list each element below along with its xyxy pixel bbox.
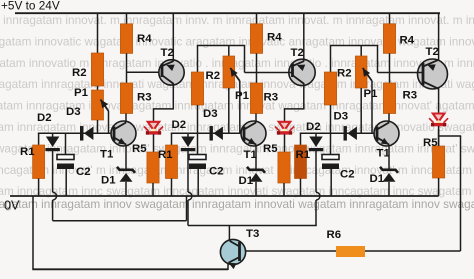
- wire D1 to 0V stage2: [255, 182, 257, 196]
- wire T3 emitter to bottom line: [227, 263, 229, 270]
- resistor R5-2: [278, 152, 290, 183]
- wire rail to R4 stage3: [389, 13, 391, 24]
- transistor T3: [220, 239, 245, 264]
- wire R4 to R3 stage2: [256, 53, 258, 83]
- svg-text:T2: T2: [291, 47, 304, 59]
- wire rail to R2 stage1: [97, 13, 99, 53]
- wire R2 to P1 stage1: [97, 86, 99, 90]
- wire C2 to 0V stage3: [330, 169, 332, 196]
- transistor T1-1: [111, 121, 136, 146]
- svg-text:T2: T2: [426, 46, 439, 58]
- svg-text:m innragatam innovat. m inn: m innragatam innovat. m innragatam innv.…: [0, 13, 474, 27]
- wire left drop to bottom: [32, 196, 34, 269]
- wire node to R1 stage1: [38, 133, 40, 146]
- wire node to R1 stage3: [300, 133, 302, 146]
- svg-text:R5: R5: [423, 137, 438, 149]
- wire D2-2 to bracket B: [187, 151, 189, 193]
- resistor R4-1: [120, 24, 132, 54]
- watermark background text: [0, 13, 474, 211]
- wire T1 base node line stage2: [171, 132, 210, 134]
- svg-text:D3: D3: [66, 106, 81, 118]
- svg-text:R1: R1: [296, 149, 311, 161]
- svg-text:D1: D1: [101, 174, 116, 186]
- preset P1-2: [223, 56, 235, 88]
- wire node to C2 stage3: [330, 133, 332, 155]
- transistor T1-2: [241, 121, 266, 146]
- wire T2 collector down stage2: [303, 83, 305, 109]
- svg-text:D1: D1: [370, 173, 385, 185]
- wire P1 top stage2: [228, 46, 230, 57]
- wire C2 to 0V stage1: [65, 169, 67, 196]
- capacitor C2-1: [57, 155, 74, 160]
- svg-text:C2: C2: [209, 165, 224, 177]
- svg-text:D2: D2: [306, 121, 321, 133]
- wire T3 base to R6: [246, 250, 337, 252]
- svg-text:T1: T1: [100, 148, 114, 160]
- wire D1 to 0V stage3: [388, 182, 390, 196]
- zener diode D1-3: [380, 167, 398, 173]
- wire R1 to 0V stage2: [171, 179, 173, 197]
- wire T1 emitter to D1 stage2: [255, 145, 257, 171]
- wire node to D2 stage3: [315, 133, 317, 137]
- preset P1 stage1: [92, 90, 104, 120]
- wire T2 emitter to rail stage2: [303, 13, 305, 61]
- svg-text:P1: P1: [235, 90, 250, 102]
- wire R5 to 0V stage2: [283, 183, 285, 196]
- resistor R1-3: [295, 145, 307, 179]
- wire node to C2 stage1: [65, 133, 67, 155]
- resistor R2-2: [191, 72, 203, 105]
- svg-text:T3: T3: [246, 228, 259, 240]
- svg-text:R4: R4: [267, 31, 282, 43]
- wire T2 collector down stage3: [438, 88, 440, 114]
- transistor T2-2: [289, 59, 315, 85]
- svg-text:wagatam innragatam innov swa: wagatam innragatam innov swagatam innrag…: [0, 197, 474, 211]
- preset P1-3: [355, 56, 367, 88]
- resistor R5-3: [433, 146, 445, 178]
- svg-text:D3: D3: [334, 110, 349, 122]
- wire R4 to R3 stage3: [389, 53, 391, 83]
- wire R5 to 0V stage3: [438, 178, 440, 196]
- node R5-3 junction wire: [438, 129, 440, 146]
- wire LED to R5 stage2: [284, 134, 286, 152]
- svg-text:C2: C2: [340, 168, 355, 180]
- wire R1 to 0V stage3: [300, 179, 302, 197]
- resistor R2-1: [91, 53, 103, 86]
- LED LED-1: [148, 122, 160, 130]
- wire node to R1 stage2: [171, 133, 173, 146]
- wire D2-3 down: [315, 151, 317, 193]
- diode D3-2: [210, 126, 213, 141]
- LED LED-2: [279, 122, 291, 130]
- wire T3 collector: [228, 226, 230, 241]
- svg-text:swagatam innragatam innovat': swagatam innragatam innovat' swagatam in…: [0, 141, 474, 155]
- zener diode D1-2: [247, 167, 265, 173]
- wire LED to R5 stage3: [438, 126, 440, 146]
- wire T1 emitter to D1 stage3: [388, 145, 390, 171]
- wire T1 base node line stage3: [300, 132, 344, 134]
- wire bracket B: [188, 225, 317, 227]
- svg-text:0V: 0V: [4, 199, 20, 213]
- svg-text:D3: D3: [203, 108, 218, 120]
- diode D2-3: [309, 137, 323, 148]
- wire T1 collector to R3 stage2: [255, 114, 257, 123]
- wire +V top rail: [15, 12, 440, 14]
- svg-text:R2: R2: [72, 67, 87, 79]
- diode D3-3: [344, 126, 347, 141]
- transistor T1-3: [374, 121, 399, 146]
- transistor T2-1: [159, 60, 184, 85]
- resistor R1-1: [33, 145, 45, 179]
- wire bracket A: [53, 220, 187, 222]
- wire node to C2 stage2: [197, 133, 199, 155]
- wire R6 to right edge: [365, 250, 461, 252]
- svg-text:T1: T1: [244, 149, 258, 161]
- wire C2 to 0V stage2: [197, 169, 199, 196]
- transistor T2-3: [418, 59, 448, 89]
- svg-text:R4: R4: [137, 33, 152, 45]
- wire T2 collector down stage1: [172, 83, 174, 109]
- preset wiper arrow P1-3: [363, 68, 372, 81]
- wire node to T2 base stage1: [127, 71, 163, 73]
- wire 0V rail: [10, 195, 439, 197]
- resistor R3-2: [250, 83, 262, 114]
- svg-text:R4: R4: [400, 34, 415, 46]
- capacitor C2-2: [189, 155, 206, 160]
- wire right edge up: [460, 136, 462, 251]
- svg-text:T1: T1: [377, 147, 391, 159]
- resistor R2-3: [324, 72, 336, 105]
- svg-text:R3: R3: [403, 89, 418, 101]
- wire P1 bottom stage3: [360, 88, 362, 133]
- resistor R1-2: [166, 145, 178, 179]
- svg-text:C2: C2: [76, 166, 91, 178]
- diode D2-1: [46, 137, 60, 148]
- wire node to D2 stage1: [52, 133, 54, 137]
- svg-text:P1: P1: [74, 87, 89, 99]
- resistor R4-2: [250, 24, 262, 54]
- resistor R3-1: [120, 83, 132, 114]
- svg-text:D2: D2: [37, 112, 52, 124]
- svg-text:R5: R5: [132, 143, 147, 155]
- svg-text:R2: R2: [337, 67, 352, 79]
- wire T1 base node line stage1: [38, 132, 80, 134]
- svg-text:R2: R2: [206, 70, 221, 82]
- wire T1 collector to R3 stage3: [388, 114, 390, 123]
- LED LED-3: [433, 114, 445, 122]
- resistor R3-3: [383, 83, 395, 114]
- preset wiper arrow P1 stage1: [101, 100, 109, 112]
- wire P1 bottom stage2: [228, 88, 230, 133]
- wire wiper down stage1: [108, 111, 110, 133]
- wire T1 emitter to D1 stage1: [125, 145, 127, 171]
- wire rail to R4 stage2: [256, 13, 258, 24]
- preset wiper arrow P1-2: [230, 68, 240, 81]
- wire R5 to 0V stage1: [152, 183, 154, 196]
- svg-text:R3: R3: [137, 91, 152, 103]
- wire R2 to node stage3: [330, 105, 332, 133]
- wire bottom long line: [32, 268, 228, 270]
- svg-text:R3: R3: [264, 91, 279, 103]
- wire wiper down stage2: [239, 81, 241, 133]
- svg-text:R1: R1: [158, 149, 173, 161]
- svg-text:R1: R1: [20, 146, 35, 158]
- wire R4 to R3 stage1: [126, 53, 128, 83]
- wire P1 top stage3: [360, 46, 362, 57]
- resistor R4-3: [383, 24, 395, 54]
- wire T1 collector to R3 stage1: [125, 114, 127, 123]
- diode D3-1: [80, 126, 83, 141]
- svg-text:swagatam innragatam innovatio: swagatam innragatam innovatio swagatam i…: [0, 120, 474, 134]
- wire P1 to base node stage1: [97, 120, 99, 133]
- svg-text:D2: D2: [172, 119, 187, 131]
- wire bracket stage3: [330, 46, 332, 73]
- wire bracket stage2: [197, 46, 199, 73]
- svg-text:R5: R5: [263, 143, 278, 155]
- wire R1 to 0V stage1: [38, 179, 40, 197]
- svg-text:D1: D1: [239, 175, 254, 187]
- wire node to D2 stage2: [187, 133, 189, 137]
- svg-text:P1: P1: [364, 88, 379, 100]
- wire R2 to node stage2: [197, 105, 199, 133]
- wire T2 emitter to rail stage1: [172, 13, 174, 61]
- wire rail to R4 stage1: [126, 13, 128, 24]
- svg-text:+5V to 24V: +5V to 24V: [1, 0, 60, 13]
- svg-text:T2: T2: [161, 47, 174, 59]
- wire wiper down stage3: [371, 81, 373, 133]
- wire LED to R5 stage1: [153, 134, 155, 152]
- wire T2 emitter to rail stage3: [438, 13, 440, 60]
- resistor R6: [336, 246, 365, 257]
- diode D2-2: [181, 137, 195, 148]
- svg-text:R6: R6: [327, 229, 342, 241]
- wire D1 to 0V stage1: [125, 182, 127, 196]
- resistor R5-1: [147, 152, 159, 183]
- wire to R5-3 node: [439, 135, 462, 137]
- zener diode D1-1: [117, 167, 135, 173]
- wire D2-1 to bracket A: [52, 151, 54, 193]
- capacitor C2-3: [322, 155, 339, 160]
